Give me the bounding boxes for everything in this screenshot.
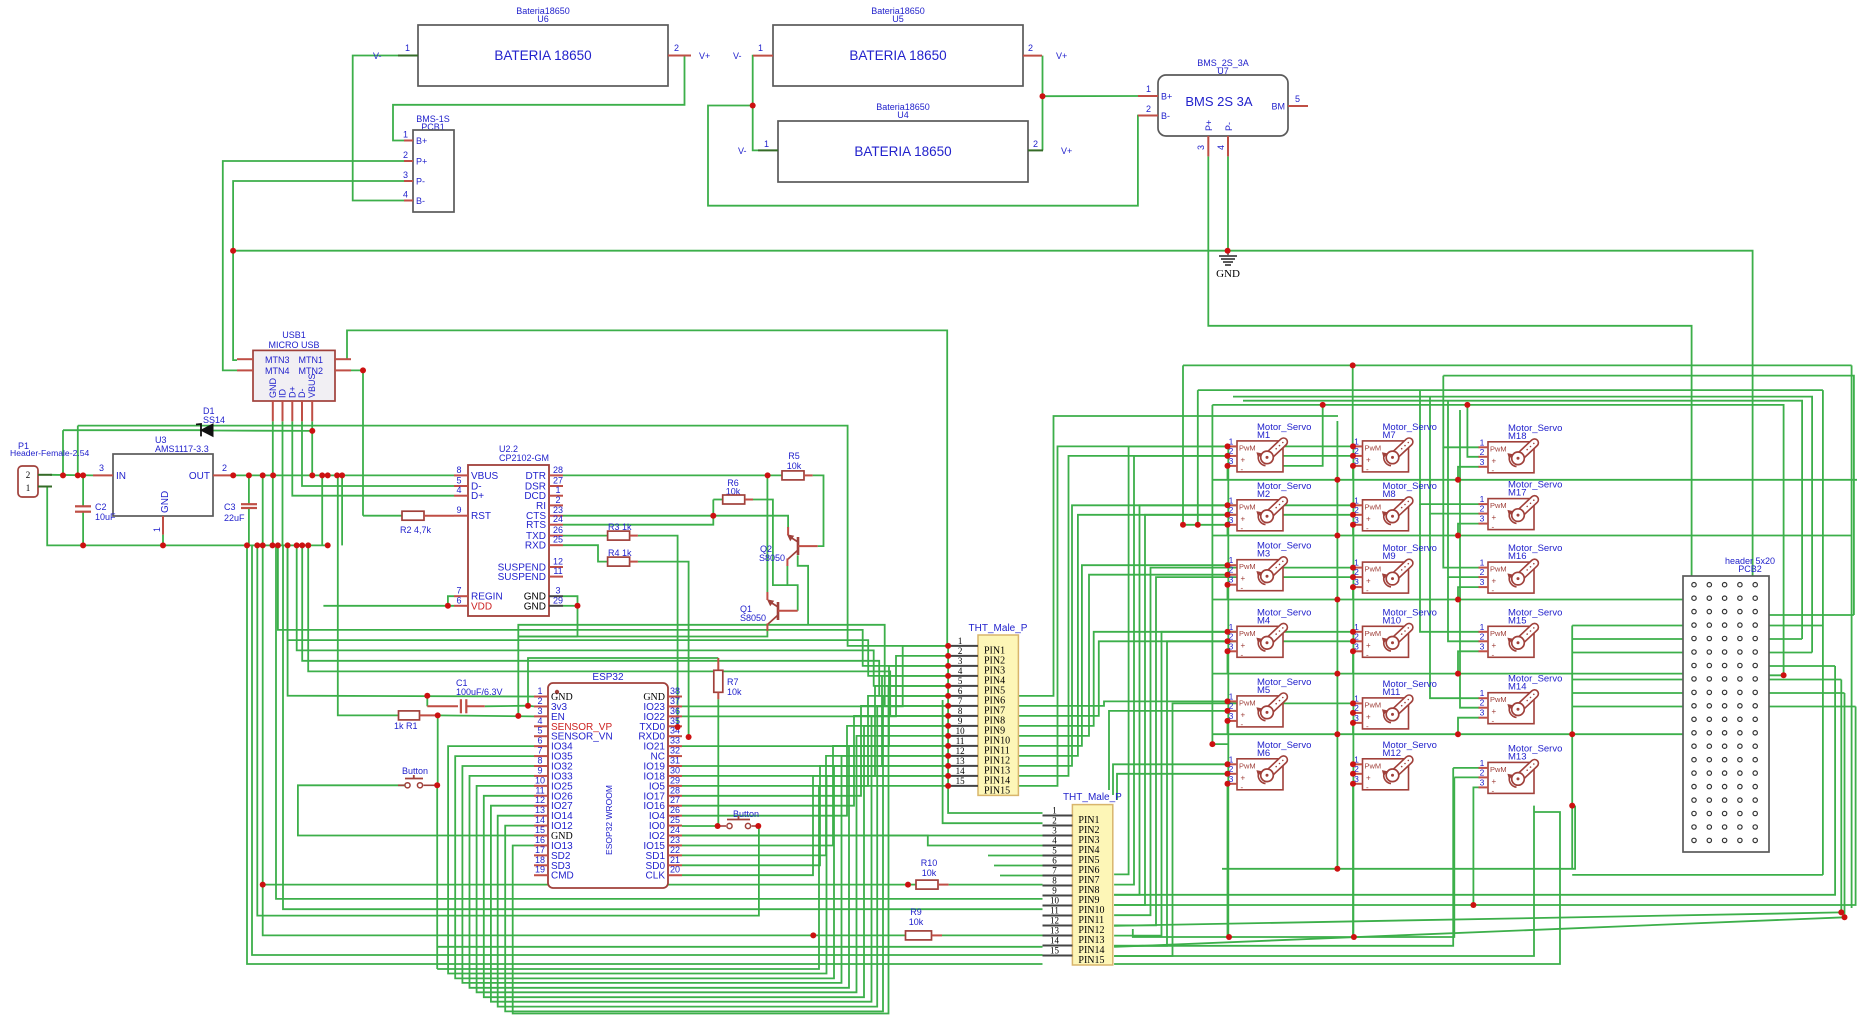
svg-text:38: 38	[670, 686, 680, 696]
svg-text:PwM: PwM	[1239, 562, 1256, 571]
svg-text:-: -	[1492, 586, 1495, 595]
junction	[1225, 582, 1231, 588]
svg-text:1: 1	[405, 43, 410, 53]
PCB2 left feed	[1572, 652, 1694, 654]
ESP32 pin 27 IO16	[668, 805, 682, 807]
svg-text:4: 4	[1052, 836, 1057, 846]
svg-text:5: 5	[456, 476, 461, 486]
junction	[1225, 248, 1231, 254]
svg-text:VDD: VDD	[471, 601, 492, 612]
PCB2 right feed	[1756, 674, 1784, 676]
svg-text:+: +	[1241, 641, 1246, 650]
svg-text:GND: GND	[160, 491, 171, 513]
svg-text:AMS1117-3.3: AMS1117-3.3	[155, 444, 209, 454]
wire	[248, 475, 250, 504]
PCB1 pin 4 B-	[404, 200, 413, 202]
svg-text:9: 9	[958, 716, 963, 726]
ESP32 pin 33 IO21	[668, 745, 682, 747]
svg-text:15: 15	[535, 825, 545, 835]
wire	[82, 475, 84, 506]
svg-text:DTR: DTR	[525, 471, 546, 482]
ESP32 right IO to header	[682, 706, 948, 796]
svg-text:-: -	[1366, 465, 1369, 474]
wire PCB1 P+ to USB MTN4	[223, 161, 404, 370]
M12 pin 2	[1353, 773, 1363, 775]
svg-text:1: 1	[1480, 688, 1485, 698]
M5 pin 1	[1228, 700, 1238, 702]
svg-text:9: 9	[1052, 886, 1057, 896]
R5 to Q2 collector	[813, 475, 824, 546]
IO2 to lower PIN4	[682, 836, 1043, 846]
servo rail y365.4	[1183, 364, 1852, 366]
svg-text:1: 1	[1480, 622, 1485, 632]
svg-text:GND: GND	[524, 601, 546, 612]
rail y964 left	[247, 545, 1043, 964]
junction	[1225, 453, 1231, 459]
riser to MTN2 rail	[77, 426, 79, 476]
svg-text:MICRO USB: MICRO USB	[268, 340, 319, 350]
svg-text:24: 24	[670, 825, 680, 835]
riser to servo col1	[1018, 505, 1228, 766]
ESP32 pin 23 IO15	[668, 844, 682, 846]
feed line to THT header	[278, 545, 948, 666]
U5 pin 1	[753, 55, 773, 57]
svg-text:D-: D-	[297, 389, 307, 399]
junction	[299, 542, 305, 548]
junction	[339, 472, 345, 478]
svg-text:19: 19	[535, 865, 545, 875]
U2.2 pin 3 GND	[549, 595, 563, 597]
svg-text:C3: C3	[224, 502, 236, 512]
svg-text:17: 17	[535, 845, 545, 855]
ESP32 right IO to header	[682, 776, 948, 875]
junction	[945, 693, 951, 699]
ESP32 right IO to header	[682, 766, 948, 865]
M7 pin1 feed	[1352, 365, 1354, 446]
USB1 pin GND	[272, 401, 274, 421]
THT pin 13	[1043, 935, 1073, 937]
THT_Male_P header	[1072, 805, 1112, 965]
junction	[1350, 720, 1356, 726]
svg-text:B-: B-	[416, 196, 425, 206]
svg-text:+: +	[1492, 513, 1497, 522]
svg-text:MTN3: MTN3	[265, 355, 290, 365]
junction	[325, 472, 331, 478]
M6 p2 feed	[1117, 774, 1229, 800]
THT pin 8	[1043, 885, 1073, 887]
R1 feed	[338, 475, 398, 715]
U2.2 pin 26 TXD	[549, 535, 563, 537]
pin3 drop c3	[1458, 587, 1479, 599]
svg-text:33: 33	[670, 736, 680, 746]
svg-text:10: 10	[1050, 896, 1060, 906]
junction	[1350, 771, 1356, 777]
EN to button	[437, 715, 439, 785]
M8 pin 2	[1353, 514, 1363, 516]
junction	[905, 882, 911, 888]
junction	[1225, 463, 1231, 469]
M3 pin 3	[1228, 584, 1238, 586]
wire U6.1 to PCB1 B-	[353, 56, 404, 201]
svg-text:S8050: S8050	[740, 613, 766, 623]
Q2 lower to node	[786, 566, 788, 585]
THT pin 10	[948, 735, 978, 737]
svg-text:PwM: PwM	[1365, 502, 1382, 511]
THT pin 12	[948, 755, 978, 757]
M13 pin 1	[1479, 767, 1489, 769]
battery U6 BATERIA 18650	[418, 25, 668, 86]
svg-text:2: 2	[1146, 104, 1151, 114]
U2.2 pin 23 CTS	[549, 515, 563, 517]
wire	[713, 499, 722, 501]
M1 pin 1	[1228, 445, 1238, 447]
junction	[1225, 443, 1231, 449]
USB D+ to CP2102	[292, 421, 454, 495]
M11 pin 1	[1353, 702, 1363, 704]
servo bus col1 b	[1197, 390, 1199, 525]
svg-text:2: 2	[1480, 567, 1485, 577]
M3 pin 2	[1228, 574, 1238, 576]
M13 p1 feed	[1453, 767, 1479, 769]
pin3 drop c2	[1352, 651, 1354, 673]
ESP32 left IO to header	[498, 706, 948, 1007]
junction	[945, 643, 951, 649]
M15 p1 feed	[1420, 504, 1479, 632]
wire U7 P- to GND	[1227, 156, 1229, 250]
svg-text:V+: V+	[1056, 51, 1067, 61]
riser to servo col2	[1114, 446, 1354, 874]
rail y909.2 left	[283, 545, 1043, 909]
svg-text:M11: M11	[1383, 687, 1401, 698]
ESP32 pin 5 SENSOR_VN	[534, 735, 548, 737]
svg-text:4: 4	[1216, 145, 1226, 150]
U2.2 pin 7 REGIN	[454, 595, 468, 597]
svg-text:-: -	[1241, 524, 1244, 533]
svg-text:-: -	[1492, 523, 1495, 532]
U4 pin 1	[758, 149, 778, 151]
svg-text:6: 6	[1052, 856, 1057, 866]
M7 pin 2	[1353, 455, 1363, 457]
junction	[1781, 672, 1787, 678]
junction	[1455, 671, 1461, 677]
junction	[1225, 781, 1231, 787]
junction	[945, 743, 951, 749]
svg-text:37: 37	[670, 696, 680, 706]
svg-text:1: 1	[764, 139, 769, 149]
U2.2 pin 9 RST	[454, 515, 468, 517]
junction	[244, 542, 250, 548]
ESP32 pin 25 IO0	[668, 825, 682, 827]
rail y868.8	[1222, 806, 1575, 869]
PCB1 pin 2 P+	[404, 160, 413, 162]
svg-text:VBUS: VBUS	[307, 373, 317, 398]
junction	[945, 703, 951, 709]
M17 pin 2	[1479, 513, 1489, 515]
svg-text:2: 2	[403, 150, 408, 160]
junction	[309, 428, 315, 434]
riser to servo col2	[1114, 568, 1354, 916]
USB1 MTN4 pin	[237, 369, 253, 371]
THT_Male_P header	[978, 635, 1018, 795]
rail y396.6	[1233, 397, 1812, 653]
ESP32 right IO to header	[682, 726, 948, 816]
REGIN loop	[448, 596, 454, 606]
ESP32 pin 35 TXD0	[668, 725, 682, 727]
ESP32 pin 11 IO26	[534, 795, 548, 797]
ESP32 GND1 line	[288, 545, 534, 696]
pin3 drop c1	[1227, 525, 1229, 536]
svg-text:M8: M8	[1383, 489, 1396, 500]
svg-text:20: 20	[670, 865, 680, 875]
ESP32 pin 6 IO34	[534, 745, 548, 747]
riser to servo col2	[1114, 703, 1354, 956]
svg-text:1: 1	[758, 43, 763, 53]
wire P1.2 to U3 IN	[50, 474, 93, 477]
M12 pin3 drop	[1352, 784, 1354, 937]
svg-text:PIN15: PIN15	[1078, 955, 1104, 966]
svg-text:11: 11	[956, 736, 965, 746]
U7 pin 3 P+	[1207, 136, 1209, 156]
junction	[1225, 522, 1231, 528]
U7 pin 1 B+	[1138, 95, 1158, 97]
M18 pin 3	[1479, 466, 1489, 468]
U5 pin 2	[1023, 55, 1042, 57]
ESP32 left IO to header	[462, 756, 948, 983]
ESP32 right IO to header	[682, 756, 948, 856]
junction	[1350, 710, 1356, 716]
svg-text:1: 1	[403, 130, 408, 140]
svg-text:11: 11	[553, 566, 562, 576]
PCB2 left bus	[1571, 626, 1573, 869]
junction	[1350, 362, 1356, 368]
button to staircase	[436, 785, 438, 969]
svg-text:-: -	[1366, 650, 1369, 659]
ESP32 pin 17 SD2	[534, 854, 548, 856]
rail y905 to right edge	[1473, 707, 1855, 906]
svg-text:3: 3	[1196, 145, 1206, 150]
rail y946.8 left	[437, 946, 1042, 948]
svg-text:2: 2	[1480, 631, 1485, 641]
PCB2 left feed	[1572, 692, 1694, 694]
junction	[765, 472, 771, 478]
junction	[275, 542, 281, 548]
junction	[755, 823, 761, 829]
svg-text:OUT: OUT	[189, 471, 210, 482]
ESP32 pin 10 IO25	[534, 785, 548, 787]
svg-text:-: -	[1366, 586, 1369, 595]
riser to servo col2	[1114, 515, 1354, 905]
svg-text:-: -	[1492, 650, 1495, 659]
svg-text:3: 3	[958, 656, 963, 666]
USB1 pin VBUS	[311, 401, 313, 421]
svg-text:6: 6	[958, 686, 963, 696]
svg-text:M13: M13	[1508, 751, 1526, 762]
junction	[270, 542, 276, 548]
svg-text:PwM: PwM	[1239, 443, 1256, 452]
svg-text:10k: 10k	[787, 461, 802, 471]
rail y955 right	[1114, 806, 1534, 956]
M15 p2 feed	[1448, 577, 1479, 641]
GND rail across to PCB2	[233, 251, 1753, 585]
PCB2 left feed	[1572, 625, 1694, 627]
wire	[426, 696, 428, 707]
svg-text:PwM: PwM	[1490, 629, 1507, 638]
riser to servo col1	[1018, 701, 1228, 706]
M7 pin 1	[1353, 445, 1363, 447]
ESP32 left IO to header	[513, 686, 948, 1014]
ESP32 pin 30 IO18	[668, 775, 682, 777]
pin3 drop c2	[1352, 525, 1354, 536]
PCB1 pin 1 B+	[404, 140, 413, 142]
svg-text:RXD: RXD	[525, 541, 546, 552]
wire to U7 B+	[1043, 95, 1139, 97]
svg-text:3: 3	[1052, 826, 1057, 836]
M18 pin 2	[1479, 456, 1489, 458]
junction	[319, 472, 325, 478]
wire RTS to junction	[563, 516, 713, 525]
THT pin 9	[948, 725, 978, 727]
M4 pin 2	[1228, 640, 1238, 642]
junction	[435, 712, 441, 718]
M6 pin 3	[1228, 783, 1238, 785]
THT pin 4	[948, 675, 978, 677]
THT pin 6	[1043, 865, 1073, 867]
M14 p2 feed	[1460, 410, 1479, 708]
junction	[1334, 866, 1340, 872]
P1 pin 1	[38, 486, 52, 488]
U3 GND to rail	[162, 535, 164, 546]
svg-text:9: 9	[456, 505, 461, 515]
M2 pin 3	[1228, 524, 1238, 526]
svg-text:13: 13	[956, 756, 966, 766]
svg-text:11: 11	[1050, 906, 1059, 916]
svg-text:V-: V-	[373, 51, 382, 61]
junction	[1350, 781, 1356, 787]
riser to lower PIN1	[948, 646, 1042, 813]
svg-text:12: 12	[553, 557, 563, 567]
R6 to Q1 collector	[753, 500, 798, 611]
svg-text:23: 23	[670, 835, 680, 845]
THT pin 10	[1043, 905, 1073, 907]
servo row gnd rail 4	[1213, 673, 1694, 675]
ESP32 pin 22 SD1	[668, 854, 682, 856]
ESP32 right IO to header	[682, 656, 948, 717]
svg-text:1: 1	[1052, 806, 1057, 816]
svg-text:31: 31	[670, 756, 680, 766]
THT pin 11	[1043, 915, 1073, 917]
USB1 pin ID	[282, 401, 284, 421]
col1 pin column bus	[1227, 446, 1229, 935]
ESP32 pin 18 SD3	[534, 864, 548, 866]
junction	[445, 603, 451, 609]
wire	[942, 934, 1043, 936]
pin3 drop c2	[1352, 723, 1354, 734]
svg-text:-: -	[1241, 584, 1244, 593]
ESP32 pin 20 CLK	[668, 874, 682, 876]
svg-text:32: 32	[670, 746, 680, 756]
svg-text:+: +	[1492, 577, 1497, 586]
svg-text:10k: 10k	[922, 868, 937, 878]
svg-text:THT_Male_P: THT_Male_P	[969, 623, 1028, 634]
wire TXD-R3	[563, 535, 608, 537]
battery U5 BATERIA 18650	[773, 25, 1023, 86]
ESP32 right IO to header	[682, 676, 948, 766]
svg-text:R7: R7	[727, 677, 739, 687]
svg-text:USB1: USB1	[282, 330, 306, 340]
ESP32 left IO to header	[505, 696, 948, 1012]
svg-text:1k R1: 1k R1	[394, 721, 418, 731]
junction	[715, 823, 721, 829]
svg-text:12: 12	[535, 795, 545, 805]
U2.2 pin 25 RXD	[549, 544, 563, 546]
svg-text:PwM: PwM	[1490, 444, 1507, 453]
PCB2 right feed r3	[1756, 614, 1854, 616]
M15 pin 2	[1479, 640, 1489, 642]
svg-text:B+: B+	[416, 136, 427, 146]
svg-text:8: 8	[958, 706, 963, 716]
svg-text:BATERIA 18650: BATERIA 18650	[849, 48, 946, 63]
junction	[945, 773, 951, 779]
M10 pin 1	[1353, 631, 1363, 633]
svg-text:1: 1	[958, 636, 963, 646]
junction	[810, 932, 816, 938]
M12 pin 1	[1353, 763, 1363, 765]
U3 AMS1117-3.3	[113, 454, 213, 516]
ESP32 pin 12 IO27	[534, 805, 548, 807]
feed lower PIN6	[994, 865, 1043, 867]
svg-text:+: +	[1241, 514, 1246, 523]
junction	[945, 733, 951, 739]
svg-text:2: 2	[674, 43, 679, 53]
wire	[248, 508, 250, 545]
servo rail y404.9	[1212, 405, 1783, 675]
ESP32 pin 24 IO2	[668, 835, 682, 837]
svg-text:R5: R5	[788, 451, 800, 461]
pin3 drop c1	[1227, 466, 1229, 480]
svg-text:RST: RST	[471, 511, 491, 522]
M8 pin 3	[1353, 524, 1363, 526]
servo bus col1 c	[1212, 405, 1228, 744]
servo row gnd rail 1	[1213, 479, 1857, 481]
EN bottom riser	[437, 786, 948, 969]
svg-text:2: 2	[1480, 447, 1485, 457]
junction	[1225, 708, 1231, 714]
svg-text:VBUS: VBUS	[471, 471, 499, 482]
svg-text:1: 1	[537, 686, 542, 696]
THT pin 7	[1043, 875, 1073, 877]
junction	[1350, 648, 1356, 654]
U2.2 pin 4 D+	[454, 495, 468, 497]
svg-text:+: +	[1492, 777, 1497, 786]
IO0 long loop wire	[257, 545, 759, 915]
pin3 drop c1	[1227, 651, 1229, 673]
svg-text:11: 11	[535, 785, 544, 795]
R7 to IO0	[717, 699, 719, 826]
wire DTR to R5	[563, 474, 782, 476]
svg-text:22uF: 22uF	[224, 513, 245, 523]
junction	[945, 763, 951, 769]
svg-text:+: +	[1241, 574, 1246, 583]
ground symbol	[1227, 251, 1229, 256]
THT pin 11	[948, 745, 978, 747]
M13 p2 feed	[1454, 776, 1479, 778]
svg-text:D+: D+	[471, 491, 484, 502]
svg-text:36: 36	[670, 706, 680, 716]
THT pin 7	[948, 705, 978, 707]
servo row gnd rail 3	[1213, 599, 1694, 601]
junction	[1470, 902, 1476, 908]
M17 p2 feed	[1430, 397, 1479, 514]
